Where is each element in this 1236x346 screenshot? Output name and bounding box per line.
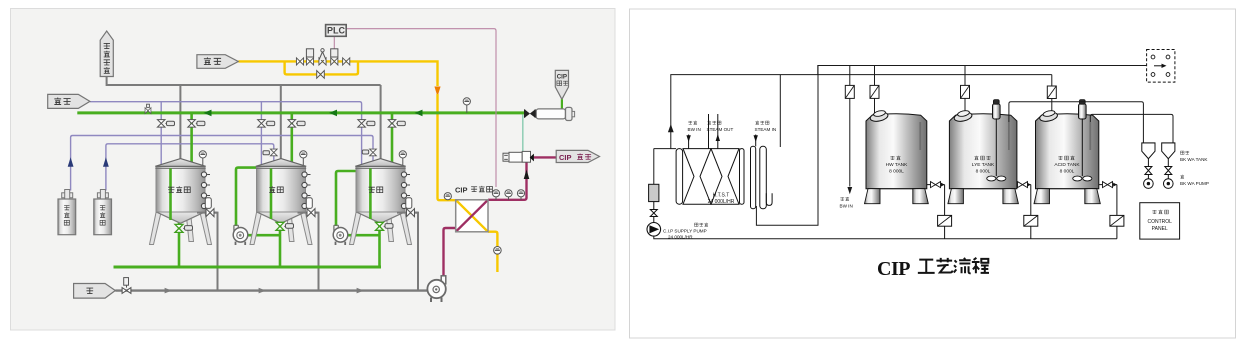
svg-text:8 000L: 8 000L xyxy=(1060,169,1075,175)
green left arrow 1 xyxy=(204,110,212,117)
tank RT2 agitator motor xyxy=(987,100,1006,181)
inlet valve pair tank T2: lavender valve xyxy=(258,120,275,128)
condensate gauge on yellow drop xyxy=(494,247,502,255)
tank RT3 body xyxy=(1036,114,1099,189)
tank T3 酸罐 legs xyxy=(350,213,412,245)
arrow on water main xyxy=(165,288,172,294)
svg-text:BW IN: BW IN xyxy=(840,204,853,209)
tank RT3 label xyxy=(1054,156,1080,175)
PLC box xyxy=(326,25,347,37)
tank RT2 outlet pipe to recovery funnel 1 xyxy=(1009,102,1144,143)
waste gas pentagon 废气排放 xyxy=(100,31,113,77)
green drop to tank T1 roof xyxy=(190,113,193,164)
green left arrow 2 xyxy=(329,110,337,117)
black up arrow on supply riser xyxy=(524,170,530,180)
tank T3 dip tube xyxy=(369,169,372,220)
concentrate acid tank 浓酸罐 xyxy=(94,190,112,235)
steam manifold valve 1 xyxy=(296,58,303,65)
steam manifold valve 2 with actuator xyxy=(306,49,313,65)
tank T1 side ports xyxy=(201,172,210,209)
HX label 1 xyxy=(688,121,701,132)
tank T3 bottom valve xyxy=(376,222,394,230)
control station dashed box xyxy=(1147,50,1175,83)
recovery funnel 1 with valve and pump xyxy=(1142,143,1155,189)
pump P2 xyxy=(333,225,348,245)
title char 工 xyxy=(918,260,935,273)
recovery tank label xyxy=(1180,151,1208,162)
svg-text:24 000L/HR: 24 000L/HR xyxy=(668,235,693,240)
water bottom main pipe xyxy=(115,289,433,291)
dosing valve tank T3 xyxy=(362,149,376,156)
CIP supply magenta pipe from pump to heater xyxy=(444,228,456,276)
pump P2 riser to tank T3 xyxy=(336,171,357,226)
svg-text:BK WA TANK: BK WA TANK xyxy=(1180,157,1208,162)
green left arrow 3 xyxy=(415,110,423,117)
green stem return pentagon to filter xyxy=(561,99,563,109)
drop line to drain with arrow 冰水 xyxy=(845,66,854,195)
svg-text:PLC: PLC xyxy=(327,26,346,36)
title char 艺 xyxy=(936,258,952,273)
drop label 冰水 BW IN xyxy=(840,197,853,209)
HX label 2 xyxy=(707,121,734,132)
dosing valve tank T2 xyxy=(263,149,277,156)
tank T1 bottom valve xyxy=(175,224,193,232)
svg-text:CONTROL: CONTROL xyxy=(1147,219,1172,225)
temperature gauge row 1 xyxy=(492,190,499,200)
steam bypass valve xyxy=(317,71,325,79)
recovery pump label xyxy=(1180,175,1209,186)
strainer filter body xyxy=(536,107,574,120)
concentrate alkali tank 浓碱罐 xyxy=(58,190,76,235)
tank RT1 body xyxy=(866,114,927,189)
tank T2 dip tube xyxy=(270,169,273,220)
tank T3 outlet pipe to drain main xyxy=(397,213,418,291)
tank T2 body xyxy=(256,159,306,224)
tank T2 outlet pipe to drain main xyxy=(298,213,319,291)
svg-text:CIP: CIP xyxy=(455,186,468,195)
tank RT2 internal dip pipe xyxy=(1008,122,1010,150)
tank T1 label 热水罐 xyxy=(168,186,190,192)
pump label C.I.P SUPPLY PUMP xyxy=(663,223,708,240)
svg-text:BK WA PUMP: BK WA PUMP xyxy=(1180,181,1209,186)
svg-text:HW TANK: HW TANK xyxy=(886,162,908,168)
heater outlet magenta pipe to supply valve xyxy=(488,162,527,200)
tank RT1 feet xyxy=(865,189,929,204)
tank T1 热水罐 legs xyxy=(150,213,212,245)
water main inlet valve xyxy=(122,278,131,294)
inlet valve pair tank T3: lavender valve xyxy=(358,120,375,128)
svg-text:CIP: CIP xyxy=(557,74,567,81)
steam yellow main pipe xyxy=(238,61,437,86)
green drop to tank T2 roof xyxy=(290,113,293,164)
CIP return green main pipe xyxy=(77,111,524,114)
tank RT3 feet xyxy=(1034,189,1100,204)
svg-text:24 000L/HR: 24 000L/HR xyxy=(708,199,735,205)
PLC signal pink line xyxy=(346,29,496,187)
up arrow on dosing pipe B xyxy=(103,157,109,166)
arrow on water main xyxy=(357,288,364,294)
steam manifold valve 4 xyxy=(343,58,350,65)
CIP heater box with cross xyxy=(456,200,488,232)
tank T1 outlet pipe to drain main xyxy=(197,213,218,291)
tank T3 side ports xyxy=(401,172,410,209)
svg-text:PANEL: PANEL xyxy=(1152,226,1168,232)
concentrate dosing pipe A (to tank T3) xyxy=(71,136,373,191)
pump P2 suction pipe xyxy=(348,234,380,237)
inlet water lavender pipe from 进水 xyxy=(90,102,362,166)
CIP supply pump xyxy=(427,276,445,302)
tank T3 bottom outlet green drop xyxy=(378,221,381,267)
pressure gauge on green main xyxy=(463,98,470,113)
steam inlet gauge at heater xyxy=(444,193,451,200)
orange down arrow on steam drop xyxy=(434,87,440,97)
tank T1 side outlet valve xyxy=(197,198,218,217)
tank RT3 manway xyxy=(1039,110,1058,123)
black valve before filter xyxy=(525,109,536,117)
tank T2 bottom valve xyxy=(276,222,294,230)
tank RT1 label xyxy=(886,156,908,175)
steam bypass loop xyxy=(285,61,358,74)
tank RT1 outlet valve and drop xyxy=(927,182,952,239)
steam control valve with cone actuator xyxy=(319,49,326,65)
svg-text:CIP: CIP xyxy=(559,153,572,162)
CIP supply pump right panel xyxy=(647,149,676,237)
tank T1 dip tube xyxy=(169,169,172,221)
HX right end riser xyxy=(779,75,781,147)
HX top pipe 1 with down arrow xyxy=(686,135,690,149)
title char 程 xyxy=(972,258,989,273)
tank RT2 manway xyxy=(953,110,972,123)
tank RT3 agitator motor xyxy=(1073,100,1092,181)
HX top pipe 3 with down arrow xyxy=(754,135,758,147)
HX caption H.T.S.T 24 000L/HR xyxy=(708,193,735,206)
temperature gauge row 3 xyxy=(517,190,524,200)
up arrow on dosing pipe A xyxy=(68,157,74,166)
inlet valve pair tank T2: green valve xyxy=(288,120,305,128)
svg-text:BW IN: BW IN xyxy=(688,127,701,132)
svg-text:STEAM IN: STEAM IN xyxy=(755,127,777,132)
vent header pipe from waste-gas stack to tank vents xyxy=(107,77,381,161)
svg-text:STEAM OUT: STEAM OUT xyxy=(707,127,734,132)
svg-text:C.I.P SUPPLY PUMP: C.I.P SUPPLY PUMP xyxy=(663,229,707,234)
HX top pipe 2 (pair) with up arrow xyxy=(709,114,721,149)
recovery funnel 2 with valve and pump xyxy=(1162,143,1175,189)
tank T2 side outlet valve xyxy=(298,198,319,217)
pump P1 riser to tank T2 xyxy=(236,168,257,226)
svg-text:ACID TANK: ACID TANK xyxy=(1054,162,1080,168)
tank RT1 internal dip pipe xyxy=(919,122,921,150)
inlet valve pair tank T1: green valve xyxy=(188,120,205,128)
title char 流 xyxy=(954,258,971,273)
tank T2 label 碱罐 xyxy=(269,186,283,192)
tank RT3 internal dip pipe xyxy=(1089,122,1091,150)
drop line to RT1 xyxy=(870,66,879,115)
CIP supply control valve assembly xyxy=(503,151,534,162)
HX drain loop to main riser xyxy=(756,66,818,226)
right panel bottom return line xyxy=(654,236,1117,239)
right panel top distribution line xyxy=(671,66,1147,149)
plate heat exchanger H.T.S.T xyxy=(676,146,772,209)
title CIP xyxy=(877,258,910,280)
tank T3 side outlet valve xyxy=(397,198,418,217)
teal sample line filter to supply valve xyxy=(522,115,524,152)
tank RT2 feet xyxy=(948,189,1019,204)
tank RT1 manway xyxy=(869,110,888,123)
svg-text:LYE TANK: LYE TANK xyxy=(972,162,995,168)
arrow on water main xyxy=(259,288,266,294)
water inlet pentagon 进水 xyxy=(48,94,90,108)
tank T3 body xyxy=(355,159,405,224)
green drop to tank T3 roof xyxy=(391,113,394,162)
tank RT3 outlet valve and drop xyxy=(1099,182,1124,239)
temperature gauge row 2 xyxy=(505,190,512,200)
steam outlet from heater with condensate drop xyxy=(488,232,497,272)
water pentagon 水 xyxy=(74,284,116,299)
tank RT2 body xyxy=(949,114,1017,189)
tank T2 碱罐 legs xyxy=(250,213,312,245)
concentrate dosing pipe B (to tank T2) xyxy=(106,144,274,191)
inlet valve pair tank T1: lavender valve xyxy=(157,120,174,128)
CIP supply pentagon CIP供给 xyxy=(556,150,599,162)
tank RT2 outlet valve and drop xyxy=(1017,182,1038,239)
tank T1 top gauge xyxy=(199,151,206,165)
magenta pipe valve to supply pentagon xyxy=(534,156,556,158)
pump P1 xyxy=(233,225,248,245)
small valve on green main xyxy=(145,104,151,113)
green bottom collection main xyxy=(114,266,382,269)
tank T1 bottom outlet green drop xyxy=(178,222,181,267)
steam pentagon 蒸汽 xyxy=(197,55,238,69)
tank T3 top gauge xyxy=(399,151,406,165)
pump P1 suction pipe xyxy=(248,234,281,237)
tank T3 label 酸罐 xyxy=(369,187,383,193)
HX label 3 xyxy=(755,121,777,132)
tank RT2 label xyxy=(972,156,995,175)
inlet valve pair tank T3: green valve xyxy=(388,120,405,128)
CIP heater label CIP 加热器 xyxy=(455,186,492,195)
control panel box xyxy=(1140,203,1180,239)
steam drop to heater xyxy=(438,94,456,200)
tank T2 side ports xyxy=(302,172,311,209)
tank T1 body xyxy=(155,159,205,224)
tank T2 top gauge xyxy=(300,151,307,165)
svg-text:CIP: CIP xyxy=(877,258,910,280)
PLC to steam valve signal line xyxy=(333,36,335,49)
drop line to RT2 xyxy=(961,66,970,115)
right panel background xyxy=(630,9,1236,338)
drop line to RT3 xyxy=(1047,75,1056,112)
steam manifold valve 3 with actuator xyxy=(331,49,338,65)
up arrow on HX feed line xyxy=(668,124,674,132)
svg-text:H.T.S.T: H.T.S.T xyxy=(713,193,730,199)
tank RT3 outlet pipe to recovery funnel 2 xyxy=(1090,114,1173,142)
CIP return pentagon CIP回流 xyxy=(555,70,568,99)
tank T2 bottom outlet green drop xyxy=(279,221,282,267)
svg-text:8 000L: 8 000L xyxy=(889,169,904,175)
svg-text:8 000L: 8 000L xyxy=(976,169,991,175)
